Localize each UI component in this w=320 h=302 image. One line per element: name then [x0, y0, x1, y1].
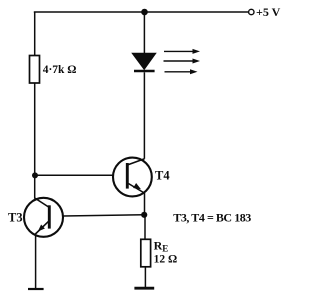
ground: below T3 emitter	[28, 288, 44, 290]
transistor T4 circle	[113, 158, 152, 197]
LED D1 triangle (anode)	[132, 53, 156, 69]
node: junction of T4 emitter, T3 base and RE	[141, 212, 147, 218]
wire: T3 base to emitter-junction node	[63, 215, 144, 216]
transistor T4 collector lead	[128, 159, 145, 165]
transistor T3 circle	[24, 198, 63, 237]
wire: LED cathode down to T4 collector	[143, 72, 145, 159]
resistor RE	[141, 239, 151, 266]
transistor T4 base bar	[126, 163, 129, 189]
wire: T3 emitter down to ground	[35, 234, 37, 288]
transistor T3 emitter arrowhead	[38, 225, 45, 232]
svg-text:+5 V: +5 V	[256, 5, 281, 19]
svg-text:T4: T4	[155, 169, 170, 183]
ground: below RE	[134, 287, 154, 290]
LED arrow 3	[165, 69, 198, 74]
wire: middle vertical from rail node to LED anode	[143, 12, 145, 54]
svg-text:RE: RE	[154, 238, 169, 253]
wire: horizontal from node to T4 base	[35, 174, 113, 176]
LED arrow 2	[164, 59, 201, 64]
transistor T3 base bar	[48, 205, 51, 228]
node: junction on top rail	[141, 9, 148, 16]
node: junction of T3 collector and T4 base	[32, 172, 38, 178]
transistor T3 emitter lead	[35, 221, 48, 234]
wire: RE bottom to ground	[144, 267, 146, 288]
transistor T3 collector lead	[35, 198, 49, 207]
wire: left vertical from resistor bottom to T3 collector	[34, 83, 36, 199]
transistor T4 emitter lead	[128, 184, 144, 194]
wire: top supply rail	[34, 11, 249, 13]
wire: T4 emitter down to junction	[144, 193, 146, 215]
resistor 4.7k	[30, 56, 40, 84]
LED D1 cathode bar	[134, 70, 155, 73]
LED arrow 1	[164, 49, 200, 54]
wire: junction down to resistor RE	[144, 215, 146, 240]
svg-text:4·7k Ω: 4·7k Ω	[43, 64, 77, 76]
svg-text:T3: T3	[8, 211, 23, 225]
wire: left vertical from rail to resistor R1 top	[34, 12, 36, 56]
svg-text:12 Ω: 12 Ω	[154, 254, 178, 266]
svg-text:T3, T4 = BC 183: T3, T4 = BC 183	[173, 211, 251, 225]
terminal: +5V open circle	[249, 9, 254, 14]
transistor T4 emitter arrowhead	[133, 183, 141, 189]
